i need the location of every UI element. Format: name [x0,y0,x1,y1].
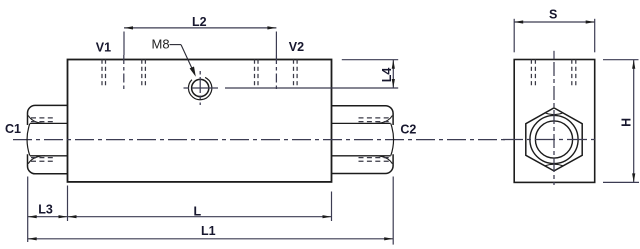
svg-text:C2: C2 [400,123,416,137]
svg-text:L: L [194,204,202,218]
svg-text:L3: L3 [38,202,53,216]
label C2 [400,123,416,137]
svg-text:S: S [549,8,557,22]
label V2 [289,40,304,54]
port C1 thread hidden lines [31,118,56,161]
valve body main view [68,60,332,182]
svg-text:V2: V2 [289,40,304,54]
M8 hole vertical centerline [199,71,201,106]
svg-text:M8: M8 [152,37,170,52]
M8 label and leader arrow [152,37,196,77]
label V1 [96,40,111,54]
svg-text:V1: V1 [96,40,111,54]
port V1 centerline [123,55,125,92]
dimension L2 [124,15,276,55]
port V2 centerline [275,55,277,92]
end view port thread hidden lines [531,60,575,88]
svg-text:H: H [619,118,633,127]
end view square body [514,60,595,183]
port C1 hex plug outline [27,105,67,173]
M8 hole horizontal centerline / L4 extension [184,87,399,89]
end view hex nut [526,108,582,171]
svg-text:L1: L1 [201,224,216,238]
end view horizontal centerline [503,139,597,141]
port V1 thread hidden lines [102,60,145,87]
dimension H [603,60,639,183]
end view vertical centerline [553,51,555,185]
dimension S [514,8,595,53]
port V2 thread hidden lines [255,60,298,87]
dimension L1 [28,177,394,245]
dimension L4 [342,60,398,88]
main horizontal centerline [13,139,507,141]
svg-text:L4: L4 [380,68,394,83]
svg-text:L2: L2 [192,15,207,29]
dimension L3 [28,177,68,243]
svg-text:C1: C1 [5,122,21,136]
port C2 hex plug outline [332,106,394,174]
label C1 [5,122,21,136]
dimension L [68,192,332,222]
M8 tapped hole [188,77,211,99]
port C2 thread hidden lines [359,118,390,161]
